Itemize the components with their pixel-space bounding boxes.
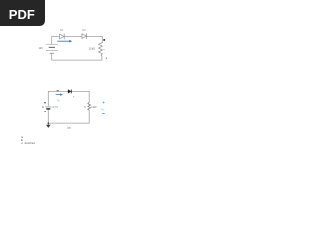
current arrow (blue) — [57, 40, 72, 43]
diode D1 — [60, 34, 65, 40]
current arrow iD (blue) — [56, 93, 63, 96]
node a — [103, 39, 105, 41]
svg-text:0.7 V: 0.7 V — [53, 107, 59, 109]
minus sign — [44, 111, 46, 113]
plus sign — [44, 102, 46, 104]
wire right-bottom — [101, 56, 103, 60]
wire bottom — [48, 122, 89, 124]
resistor R1 (1.0 k ohm) — [99, 43, 103, 57]
voltage minus (blue) — [102, 113, 105, 115]
diode D2 — [82, 33, 87, 39]
svg-text:PDF: PDF — [9, 7, 35, 22]
wire bottom — [52, 59, 102, 61]
diode D (filled) — [68, 90, 71, 94]
wire top-right — [72, 91, 90, 102]
battery B1 (12 V) — [46, 44, 58, 53]
wire right-bottom — [88, 110, 90, 123]
svg-text:1.0 kΩ: 1.0 kΩ — [89, 49, 95, 51]
wire left-bottom — [47, 110, 49, 124]
wire between diodes — [64, 36, 82, 38]
ground — [46, 122, 51, 128]
label b (above wire) — [57, 90, 59, 91]
wire top-left — [48, 91, 68, 105]
resistor R (1 k ohm) — [88, 102, 91, 110]
label below diode — [73, 96, 74, 97]
svg-text:12V: 12V — [39, 47, 44, 50]
svg-text:D2: D2 — [82, 28, 86, 32]
svg-text:Justified: Justified — [24, 142, 35, 145]
tick right of resistor — [103, 48, 105, 51]
PDF badge — [0, 0, 45, 26]
svg-text:(a): (a) — [67, 125, 70, 129]
wire top-left segment — [52, 37, 60, 45]
wire top-right segment — [87, 37, 103, 43]
node b — [106, 58, 107, 59]
battery E (0.7 V) — [45, 107, 51, 109]
wire left-bottom — [51, 54, 53, 61]
svg-text:D1: D1 — [60, 28, 64, 32]
svg-text:1 kΩ: 1 kΩ — [91, 106, 96, 109]
voltage plus (blue) — [103, 101, 105, 103]
